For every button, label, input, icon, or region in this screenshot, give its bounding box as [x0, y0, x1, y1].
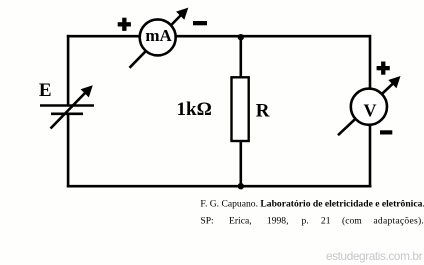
battery E long plate [40, 104, 94, 107]
wire top [67, 35, 370, 38]
wire left upper [67, 35, 70, 106]
wire right [369, 35, 372, 188]
svg-text:E: E [39, 80, 52, 101]
svg-text:V: V [364, 100, 377, 120]
ammeter variable arrow [130, 8, 189, 68]
wire middle branch upper [240, 36, 243, 78]
svg-text:1998,: 1998, [267, 215, 289, 226]
node junction bottom [238, 183, 244, 189]
svg-text:p.: p. [302, 215, 309, 226]
voltmeter U2 circle [351, 89, 387, 125]
ammeter U1 circle [140, 19, 176, 55]
svg-text:21: 21 [321, 215, 331, 226]
svg-text:Erica,: Erica, [229, 215, 252, 226]
svg-text:F. G. Capuano. Laboratório de: F. G. Capuano. Laboratório de eletricida… [200, 198, 424, 209]
caption line 2 [200, 215, 424, 226]
ammeter plus sign [118, 18, 131, 31]
svg-text:mA: mA [145, 26, 172, 45]
svg-text:SP:: SP: [200, 215, 213, 226]
voltmeter plus sign [377, 62, 390, 75]
resistor R body [232, 77, 249, 141]
svg-text:1kΩ: 1kΩ [177, 99, 212, 120]
wire left lower [67, 114, 70, 188]
voltmeter minus sign [380, 130, 392, 134]
svg-text:estudegratis.com.br: estudegratis.com.br [326, 249, 423, 263]
wire bottom [67, 185, 372, 188]
battery E variable arrow [51, 85, 93, 128]
node junction top [238, 34, 244, 40]
battery E short plate [51, 113, 83, 116]
svg-text:R: R [256, 100, 270, 121]
svg-text:(com: (com [342, 215, 362, 226]
ammeter minus sign [193, 21, 207, 25]
svg-text:adaptações).: adaptações). [373, 215, 424, 226]
voltmeter variable arrow [338, 76, 401, 135]
wire middle branch lower [240, 140, 243, 186]
